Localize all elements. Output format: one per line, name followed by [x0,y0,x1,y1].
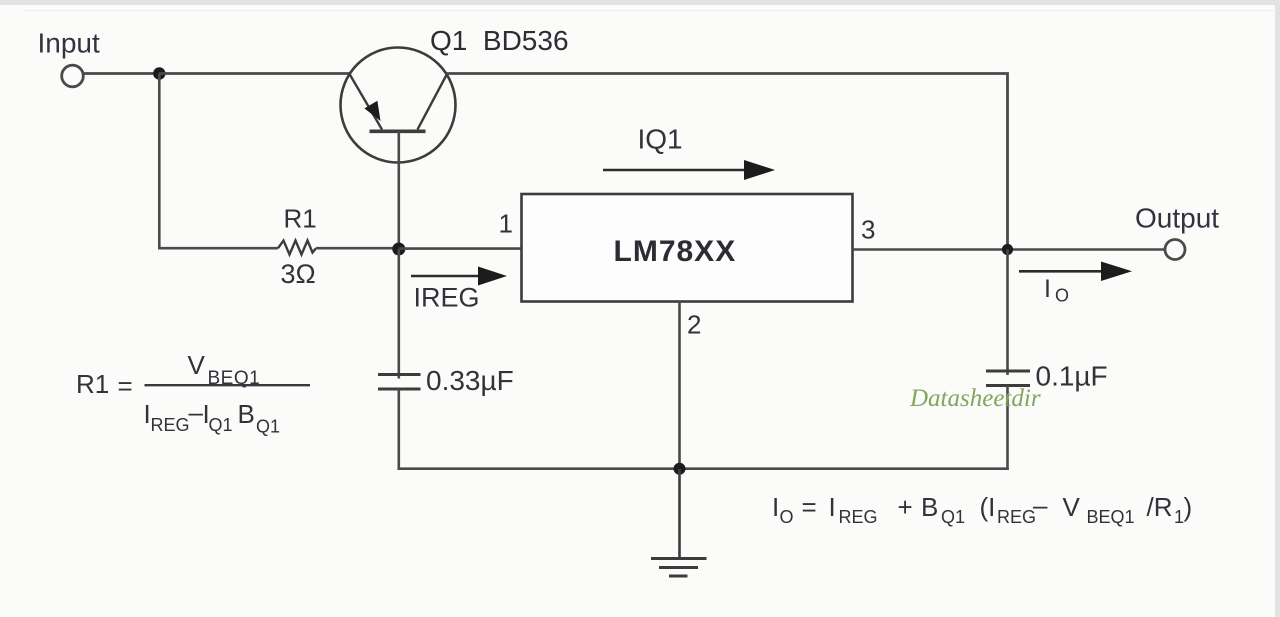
svg-text:I: I [829,492,836,522]
svg-text:LM78XX: LM78XX [614,235,737,268]
svg-text:B: B [921,492,938,522]
svg-text:Q1: Q1 [256,417,280,437]
svg-text:1: 1 [1174,507,1184,527]
svg-text:B: B [238,399,255,429]
svg-text:Output: Output [1135,203,1219,234]
wire base vertical to junction [397,131,400,250]
node Input terminal [62,65,84,87]
capacitor C2 wire lower [1006,386,1009,471]
svg-text:=: = [802,492,817,522]
svg-text:1: 1 [499,209,513,239]
regulator U1 LM78XX box [522,194,853,302]
svg-text:): ) [1184,492,1193,522]
wire pin 3 to output terminal [853,248,1166,251]
svg-text:IREG: IREG [414,283,480,313]
svg-text:(I: (I [980,492,996,522]
ground stem [678,469,681,558]
junction base node [392,243,405,256]
svg-text:/R: /R [1147,492,1173,522]
svg-text:Input: Input [38,28,100,59]
transistor Q1 emitter line [350,74,383,130]
capacitor C2 top plate [986,370,1030,373]
svg-text:Q1 BD536: Q1 BD536 [430,25,569,56]
current arrow IREG line [411,275,482,278]
svg-text:I: I [772,492,779,522]
node Output terminal [1165,240,1185,260]
capacitor C2 wire upper [1006,250,1009,376]
current arrow Io head [1101,262,1132,282]
wire transistor collector to output corner [447,74,1008,251]
capacitor C1 bottom plate [378,388,421,391]
svg-text:R1: R1 [76,369,109,399]
transistor Q1 emitter arrowhead [364,101,380,121]
svg-text:I: I [1044,275,1051,303]
junction output node [1002,244,1013,255]
wire left vertical input junction down to R1 [158,74,161,250]
current arrow Io line [1019,270,1104,273]
svg-text:2: 2 [687,310,701,340]
wire bottom ground rail [398,467,1009,470]
svg-text:–: – [189,397,204,427]
svg-text:REG: REG [997,507,1036,527]
current arrow IQ1 head [744,160,775,180]
capacitor C2 bottom plate [986,384,1030,387]
capacitor C1 wire lower [397,389,400,470]
svg-text:O: O [1055,286,1069,306]
wire resistor R1 to base junction [316,247,399,250]
capacitor C1 top plate [378,373,421,376]
top border band [0,0,1280,5]
wire base junction to pin 1 [399,247,521,250]
svg-text:V: V [188,350,206,380]
svg-text:REG: REG [839,507,878,527]
svg-text:3Ω: 3Ω [281,259,316,289]
ground bar 3 [669,575,688,578]
wire input junction to transistor emitter [159,72,350,75]
wire input terminal to input junction [84,72,160,75]
ground bar 1 [651,557,707,560]
current arrow IQ1 line [603,169,748,172]
transistor Q1 base bar [370,130,426,134]
wire to resistor R1 [158,247,278,250]
wire pin 2 down to ground rail [678,302,681,470]
junction ground node [674,463,686,475]
svg-text:0.1µF: 0.1µF [1036,361,1108,392]
resistor R1 zigzag [278,241,316,255]
formula Io equation [772,490,1192,527]
capacitor C1 wire upper [397,249,400,379]
svg-text:Q1: Q1 [941,507,965,527]
formula R1 equation [76,350,310,437]
svg-text:3: 3 [861,215,875,245]
svg-text:Datasheetdir: Datasheetdir [909,385,1041,412]
svg-text:Q1: Q1 [209,415,233,435]
svg-text:–: – [1033,490,1048,520]
svg-text:IQ1: IQ1 [638,124,683,155]
transistor Q1 collector line [418,74,448,130]
transistor Q1 circle [341,48,456,163]
svg-text:0.33µF: 0.33µF [426,365,514,396]
svg-text:=: = [118,371,133,401]
current arrow IREG head [478,267,507,286]
svg-text:V: V [1063,492,1081,522]
ground bar 2 [659,566,698,569]
junction input node [153,67,165,79]
svg-text:REG: REG [151,415,190,435]
svg-text:O: O [780,507,794,527]
svg-text:+: + [898,492,913,522]
svg-text:R1: R1 [284,204,317,234]
svg-text:BEQ1: BEQ1 [1087,507,1135,527]
right border band [1275,0,1280,617]
faint scan line [25,10,1276,11]
